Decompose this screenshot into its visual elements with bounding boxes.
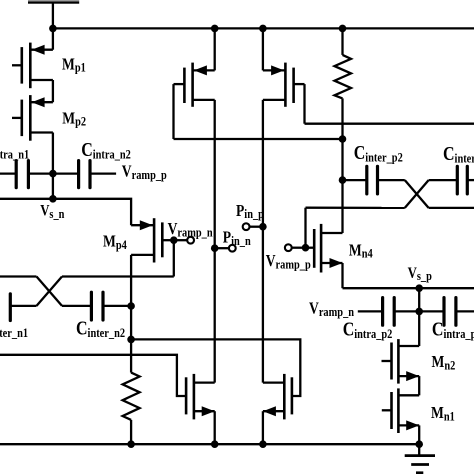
wire Mp1 source <box>52 28 54 49</box>
wire Mp1 drain to Mp2 source <box>52 80 54 102</box>
node bottom rail center-right <box>259 440 267 448</box>
wire center-right drain <box>262 100 264 383</box>
wire crossover right diag A <box>405 180 429 208</box>
terminal Pin_n <box>229 245 236 252</box>
svg-text:Cintra_n2: Cintra_n2 <box>81 139 131 162</box>
wire R2 node down <box>341 139 343 180</box>
node bottom rail center-left <box>211 440 219 448</box>
transistor Mn4 <box>306 224 343 273</box>
node bottom rail left <box>127 440 135 448</box>
wire crossover left diag A <box>37 277 63 306</box>
node Pin_p tap <box>259 223 267 231</box>
svg-text:Vramp_p: Vramp_p <box>122 162 167 182</box>
node top rail left <box>49 25 57 33</box>
svg-text:Mn4: Mn4 <box>349 241 373 261</box>
svg-text:Mn2: Mn2 <box>432 353 456 373</box>
bottom rail <box>0 443 419 445</box>
node cross gate left <box>127 336 135 344</box>
wire resistor R2 bottom lead <box>341 98 343 139</box>
wire Mp4 drain down <box>130 255 132 306</box>
svg-text:Mp1: Mp1 <box>62 55 86 75</box>
capacitor Cintra_n2 <box>79 161 90 188</box>
terminal Vramp_p at Mn4 <box>285 244 292 251</box>
wire Vsn left <box>0 198 53 200</box>
resistor R2 <box>335 55 352 99</box>
wire Vsp <box>343 287 474 289</box>
wire crossover to right edge <box>429 207 474 209</box>
node Vsn cap tap <box>49 170 57 178</box>
resistor R1 <box>123 373 140 420</box>
wire Mn4 gate to terminal <box>292 247 306 249</box>
wire Mn2 source to Mn1 drain <box>418 376 420 395</box>
wire Mp4 gate riser <box>173 240 175 276</box>
svg-text:Vs_p: Vs_p <box>408 265 433 284</box>
node bottom rail right <box>415 440 423 448</box>
terminal Pin_p <box>243 223 250 230</box>
wire resistor R1 top lead <box>130 339 132 372</box>
transistor Mn2 <box>382 339 420 384</box>
svg-text:Mp4: Mp4 <box>103 232 127 252</box>
wire Cintra_n2 to Vramp_p <box>90 172 116 174</box>
wire Mp2 drain down <box>52 133 54 174</box>
wire Cintra_p1 right lead <box>456 310 474 312</box>
wire Mn4 gate riser <box>304 208 306 248</box>
wire Cinter_p2 to crossover <box>378 179 405 181</box>
wire Cinter_n2 to node <box>103 305 131 307</box>
wire M7 source down <box>214 411 216 444</box>
wire inter top-left <box>0 275 37 277</box>
transistor Mp2 <box>12 95 53 141</box>
node Pin_n tap <box>211 244 219 252</box>
wire crossover to Cinter_n2 <box>62 305 91 307</box>
svg-text:Cinter_p1: Cinter_p1 <box>443 142 474 165</box>
capacitor Cinter_n1 <box>9 294 12 321</box>
capacitor Cintra_p1 <box>444 298 456 326</box>
svg-text:Cintra_p1: Cintra_p1 <box>432 318 474 341</box>
transistor M5 cross-coupled PMOS left <box>174 63 215 107</box>
transistor Mp1 <box>12 43 53 89</box>
svg-text:Vramp_n: Vramp_n <box>168 220 213 240</box>
node Vsn <box>49 195 57 203</box>
node top rail center-left <box>211 25 219 33</box>
VDD supply bar <box>28 0 79 4</box>
wire Mp4 gate to terminal <box>174 239 187 241</box>
ground symbol <box>405 444 435 473</box>
wire Mn1 source down <box>418 425 420 444</box>
svg-text:Vramp_p: Vramp_p <box>266 252 311 272</box>
transistor M6 cross-coupled PMOS right <box>263 63 305 107</box>
svg-text:Mp2: Mp2 <box>62 109 86 129</box>
svg-text:Pin_p: Pin_p <box>236 202 264 222</box>
transistor M8 cross-coupled NMOS right <box>263 374 292 420</box>
wire Pin_p stub <box>250 226 263 228</box>
wire crossover right diag B <box>405 180 429 208</box>
wire Vsn to Mp4 source <box>53 199 131 225</box>
svg-text:Cinter_n2: Cinter_n2 <box>76 317 125 340</box>
node Vsp <box>415 284 423 292</box>
svg-text:Vramp_n: Vramp_n <box>309 299 354 319</box>
wire M6 gate riser <box>303 84 305 124</box>
wire Pin_n stub <box>215 247 229 249</box>
wire M6 gate to right edge <box>305 123 474 125</box>
node top rail center-right <box>259 25 267 33</box>
node top rail right <box>339 25 347 33</box>
wire Cintra_p2 to node <box>394 310 419 312</box>
svg-text:Cintra_p2: Cintra_p2 <box>343 318 393 341</box>
node resistor R2 bottom <box>339 135 347 143</box>
svg-text:Vs_n: Vs_n <box>40 202 65 221</box>
node Vsp cap tap <box>415 308 423 316</box>
wire resistor R2 top lead <box>341 28 343 55</box>
svg-text:Pin_n: Pin_n <box>223 228 251 248</box>
node Mp4 gate <box>170 236 178 244</box>
top rail VDD <box>53 27 474 29</box>
node Mn4 gate <box>302 244 310 252</box>
wire Cintra_n1 to node <box>28 172 53 174</box>
capacitor Cinter_n2 <box>91 292 103 320</box>
wire center-left drain <box>214 100 216 383</box>
wire node to Cinter_p2 <box>343 179 367 181</box>
wire Vramp_n to Cintra_p2 <box>358 310 383 312</box>
svg-text:Mn1: Mn1 <box>431 404 455 424</box>
wire center-left source <box>214 28 216 70</box>
wire node to Cintra_n2 <box>53 172 79 174</box>
node Cinter_n2 <box>127 302 135 310</box>
transistor Mn1 <box>382 388 419 433</box>
transistor Mp4 <box>131 218 174 262</box>
svg-text:Cinter_p2: Cinter_p2 <box>354 142 403 165</box>
capacitor Cinter_p1 <box>457 166 467 194</box>
capacitor Cintra_n1 <box>16 161 28 188</box>
wire M8 source down <box>262 411 264 444</box>
wire node down to Mn4 drain <box>341 180 343 233</box>
wire resistor R1 bottom lead <box>130 420 132 444</box>
wire crossover to Mp4 gate <box>62 275 174 277</box>
wire Mn4 source down <box>341 263 343 288</box>
wire cross gate right NMOS <box>131 339 300 396</box>
terminal Vramp_n at Mp4 <box>187 237 194 244</box>
capacitor Cinter_p2 <box>367 166 378 194</box>
wire Cinter_n1 lead <box>10 305 36 307</box>
wire Mn4 gate long <box>306 207 405 209</box>
svg-text:Cintra_n1: Cintra_n1 <box>0 139 29 162</box>
wire cap tap down to Vsn <box>52 174 54 199</box>
wire crossover to Cinter_p1 <box>429 179 458 181</box>
wire VDD stem <box>52 4 54 29</box>
capacitor Cintra_p2 <box>383 298 395 326</box>
wire M5 gate to resistor node <box>174 138 343 140</box>
wire Cinter_p1 right lead <box>467 179 474 181</box>
wire node to cross node <box>130 306 132 339</box>
wire node to Cintra_p1 <box>419 310 444 312</box>
wire Cintra_n1 left lead <box>0 172 16 174</box>
transistor M7 cross-coupled NMOS left <box>186 374 215 420</box>
wire M5 gate riser <box>172 84 174 139</box>
wire left gate long <box>0 355 186 396</box>
wire Vsp down <box>418 288 420 346</box>
node Cinter_p2 tap <box>339 176 347 184</box>
wire crossover left diag B <box>37 277 63 306</box>
wire center-right source <box>262 28 264 70</box>
svg-text:Cinter_n1: Cinter_n1 <box>0 317 28 340</box>
